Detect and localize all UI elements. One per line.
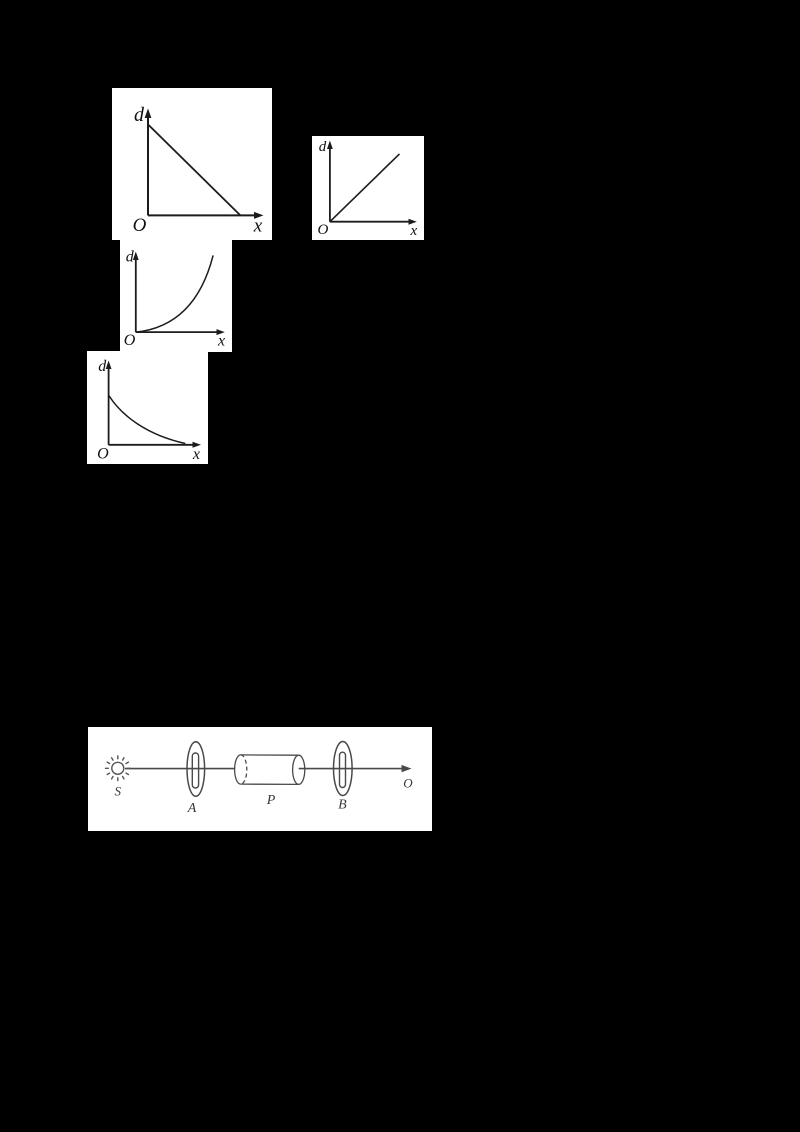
panel C: d vs x concave-up increasing curve graph bbox=[120, 240, 232, 352]
svg-text:A: A bbox=[187, 801, 197, 816]
svg-text:x: x bbox=[253, 216, 263, 237]
decreasing line curve bbox=[148, 125, 240, 215]
panel D: d vs x decaying curve graph bbox=[87, 351, 208, 464]
svg-text:d: d bbox=[134, 104, 145, 126]
svg-text:d: d bbox=[126, 249, 135, 266]
exponential decay curve bbox=[109, 396, 185, 444]
exponential rising curve bbox=[136, 255, 213, 332]
svg-text:O: O bbox=[97, 446, 109, 463]
svg-text:P: P bbox=[266, 793, 276, 808]
tube P cylinder bbox=[235, 755, 305, 785]
svg-text:d: d bbox=[319, 139, 327, 155]
svg-text:O: O bbox=[317, 222, 328, 238]
y-axis with arrow bbox=[106, 361, 112, 445]
x-axis with arrow bbox=[330, 219, 417, 225]
lens B bbox=[334, 742, 353, 796]
svg-text:O: O bbox=[124, 332, 136, 349]
lens A bbox=[187, 742, 205, 797]
svg-text:d: d bbox=[98, 358, 107, 375]
svg-text:S: S bbox=[114, 784, 121, 799]
y-axis with arrow bbox=[145, 109, 152, 216]
panel B: d vs x increasing straight line graph bbox=[312, 136, 424, 240]
y-axis with arrow bbox=[327, 141, 333, 222]
increasing line curve bbox=[330, 154, 400, 222]
optical axis line right segment with arrow to O bbox=[299, 765, 412, 772]
x-axis with arrow bbox=[136, 329, 225, 335]
x-axis with arrow bbox=[148, 212, 264, 219]
y-axis with arrow bbox=[133, 252, 139, 333]
svg-text:x: x bbox=[217, 333, 225, 350]
light source S sun symbol bbox=[106, 756, 131, 781]
optical axis line left segment bbox=[125, 768, 235, 770]
svg-text:x: x bbox=[409, 223, 417, 239]
svg-text:O: O bbox=[403, 775, 413, 790]
svg-text:B: B bbox=[338, 798, 347, 813]
svg-text:O: O bbox=[133, 215, 147, 236]
panel E: optical bench diagram with source S, lenses A and B, tube P bbox=[88, 727, 432, 831]
svg-text:x: x bbox=[192, 446, 200, 463]
panel A: d vs x decreasing straight line graph bbox=[112, 88, 272, 240]
x-axis with arrow bbox=[109, 442, 201, 448]
